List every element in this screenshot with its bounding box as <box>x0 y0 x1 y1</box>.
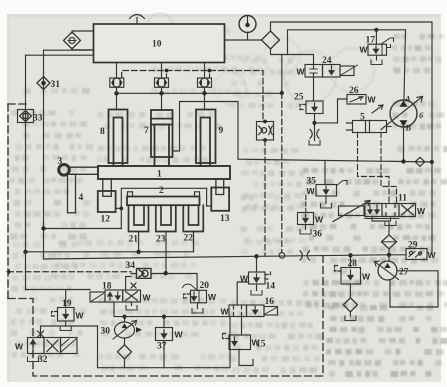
svg-text:37: 37 <box>157 342 167 352</box>
node pump 6 B <box>401 159 405 163</box>
valve 14 (relief) <box>249 272 266 284</box>
node valve 28 tap <box>348 253 352 257</box>
valve 25 tank <box>309 141 320 146</box>
check valve 34 <box>137 269 152 279</box>
node pump1 <box>114 91 118 95</box>
svg-text:W: W <box>360 45 369 55</box>
drain manifold (dashed) above pumps <box>122 71 263 122</box>
dashed enclosure top stub <box>8 103 28 105</box>
svg-text:20: 20 <box>200 281 210 291</box>
filter to return line <box>124 359 126 368</box>
dashed enclosure bottom jog <box>8 257 323 377</box>
svg-text:34: 34 <box>126 261 136 271</box>
svg-text:W: W <box>221 307 230 317</box>
svg-text:W: W <box>15 342 24 352</box>
dashed drain continues down <box>264 140 266 256</box>
svg-text:B: B <box>405 123 412 133</box>
svg-text:12: 12 <box>101 215 111 225</box>
wire 14 side to valve 16 <box>237 282 248 305</box>
pull-back cylinder 12 rod <box>103 179 112 196</box>
valve 20 tank <box>197 303 199 309</box>
dashed enclosure left edge <box>7 104 9 299</box>
svg-text:W: W <box>208 292 217 302</box>
svg-text:29: 29 <box>408 241 418 251</box>
svg-text:15: 15 <box>256 340 266 350</box>
vertical line A (left) <box>25 55 27 289</box>
pump 30 suction wire <box>124 338 126 345</box>
valve 15 pilot bracket <box>223 334 230 339</box>
valve 32 (directional, 3-pos) <box>28 338 78 354</box>
valve 20 pilot bracket <box>184 294 191 298</box>
tank 10 <box>94 24 225 63</box>
fill filter loop wires (left of tank) <box>72 31 94 50</box>
valve 17 pilot loop <box>381 38 394 48</box>
node pump 30 <box>122 315 126 319</box>
ejector cylinder 22 <box>183 205 203 231</box>
svg-text:W: W <box>143 293 152 303</box>
valve 19 drain <box>65 321 67 326</box>
valve 25 (pilot relief) <box>306 101 323 114</box>
pump 6 port B wire <box>403 127 405 162</box>
node drain block bottom <box>263 138 267 142</box>
svg-text:28: 28 <box>348 259 358 269</box>
valve 35 drain / tank <box>325 196 327 204</box>
wire down to valve 17 <box>375 30 377 44</box>
aux pump 27 <box>375 261 399 280</box>
wire 16 to valve 15 <box>241 317 243 336</box>
svg-text:27: 27 <box>399 268 409 278</box>
svg-text:26: 26 <box>349 86 359 96</box>
valve 24 (unloader solenoid) <box>305 65 358 78</box>
valve 35 (relief) <box>316 185 337 197</box>
low-pressure loop wire <box>98 302 231 368</box>
valve 32 drain <box>32 354 34 358</box>
svg-text:A: A <box>404 94 411 104</box>
wire rail to valve 14 <box>256 256 258 272</box>
fill filter diamond <box>64 32 81 49</box>
dashed pilot line x=282 <box>281 93 283 252</box>
cylinder 8 <box>109 110 128 167</box>
svg-text:9: 9 <box>219 126 224 136</box>
valve 29 <box>406 249 427 260</box>
pull-back cylinder 13 body <box>211 188 229 211</box>
svg-text:24: 24 <box>322 56 332 66</box>
beam 2 boss right <box>195 192 200 197</box>
node drain block top <box>263 120 267 124</box>
cylinder 9 <box>196 110 216 167</box>
cylinder 13 port wire <box>207 188 212 206</box>
svg-text:W: W <box>315 215 324 225</box>
pump 3 <box>198 78 212 87</box>
svg-text:25: 25 <box>294 93 304 103</box>
feed wire cylinder 8 <box>116 93 118 109</box>
feed wire cylinder 7 <box>161 93 163 110</box>
svg-text:1: 1 <box>157 170 162 180</box>
svg-text:21: 21 <box>129 235 139 245</box>
wire rail to valve 29 <box>389 254 406 256</box>
stroke gauge roller 3 <box>59 165 70 176</box>
feed stub cylinder 22 <box>193 232 195 252</box>
pilot line end circle <box>279 253 285 259</box>
svg-text:11: 11 <box>398 194 407 204</box>
suction filter diamond <box>118 345 132 359</box>
pull-back return wire to vertical B <box>44 228 122 230</box>
valve 36 <box>298 213 314 225</box>
drain stub pump 3 <box>209 71 211 79</box>
svg-text:5: 5 <box>360 113 365 123</box>
valve 18 tank <box>131 302 133 306</box>
node pump3 <box>202 91 206 95</box>
pull-back cylinder 12 body <box>98 191 116 212</box>
valve 15 drain pipe <box>239 350 253 366</box>
pump 3 suction from tank <box>204 63 206 79</box>
valve 15 (relief) <box>229 335 251 350</box>
beam 2 boss left <box>128 192 133 197</box>
pump 30 drive arrow <box>136 327 142 333</box>
valve 37 drain to return <box>163 341 165 368</box>
valve 36 pilot (dashed) <box>305 196 307 213</box>
ejector cylinder 21 <box>129 205 149 231</box>
pump 27 suction <box>390 271 438 307</box>
air filter 31 <box>37 77 50 90</box>
svg-text:W: W <box>362 272 371 282</box>
svg-text:W: W <box>428 250 437 260</box>
valve 26 (pilot valve) <box>347 95 366 105</box>
svg-text:16: 16 <box>265 297 275 307</box>
right rail continues down <box>431 162 433 255</box>
wire filter to pump 27 <box>388 249 390 262</box>
proportional valve 11 <box>333 201 416 222</box>
svg-text:30: 30 <box>101 327 111 337</box>
return filter diamond <box>262 31 280 49</box>
gauge isolator 33 <box>18 110 34 123</box>
svg-text:36: 36 <box>313 230 323 240</box>
junction marker on dashed edge <box>6 269 10 274</box>
main pump 6 <box>381 97 423 130</box>
node at pilot tap <box>280 91 284 95</box>
pump 1 outlet <box>116 87 118 93</box>
throttle under valve 25 <box>310 130 319 139</box>
wire: filter bottom / unloading line <box>271 49 314 65</box>
svg-text:13: 13 <box>220 214 230 224</box>
svg-text:W: W <box>175 330 184 340</box>
gauge stem wire <box>225 33 262 41</box>
filling pump 30 <box>113 321 137 340</box>
check/throttle block on drain (between press and valves) <box>257 122 274 141</box>
valve 25 pilot bracket <box>300 105 306 110</box>
node right rail corner <box>430 160 434 164</box>
valve 28 drain <box>349 284 351 298</box>
valve 20 pilot loop <box>183 284 198 290</box>
valve 19 pilot bracket <box>52 312 58 317</box>
cylinder 7 rod-side port wire <box>173 102 239 160</box>
main delivery rail <box>238 159 432 162</box>
servo control arrow to pump <box>372 105 383 113</box>
svg-text:10: 10 <box>152 40 162 50</box>
filter diamond under valve 11 <box>382 235 397 249</box>
wire 34 to ejector/valve20 <box>131 274 197 291</box>
node B / pull-back return <box>41 226 45 230</box>
x mark above valve 18 <box>131 283 136 288</box>
filter to tank <box>349 312 351 316</box>
wire 24 to 25 <box>313 77 315 101</box>
vertical line B <box>43 50 45 259</box>
ejector supply wire <box>26 232 194 252</box>
pump 3 outlet <box>204 87 206 93</box>
servo pilot lines (dashed) <box>358 133 390 204</box>
valve 35 pilot tap <box>337 181 348 186</box>
svg-text:22: 22 <box>184 234 194 244</box>
valve 11 tank <box>390 217 392 222</box>
feed wire cylinder 9 <box>204 93 206 109</box>
valve 18 (directional 2-pos) <box>90 290 141 302</box>
node cyl12 port <box>119 207 123 211</box>
svg-text:W: W <box>368 95 377 105</box>
pump 1 <box>110 78 124 87</box>
valve 35 feed <box>324 160 326 184</box>
pilot line to valve 34 (dashed) <box>8 271 131 273</box>
valve 36 drain / tank <box>305 225 307 230</box>
pressure gauge (top right of tank) <box>239 16 256 33</box>
breather vent on tank 10 <box>130 15 145 25</box>
wire tank-left to vertical B <box>44 49 94 51</box>
svg-text:4: 4 <box>79 193 84 203</box>
valve 28 pilot bracket <box>335 266 342 272</box>
wire: filter top to far right rail <box>271 22 433 162</box>
svg-text:33: 33 <box>33 114 43 124</box>
lower beam 2 <box>127 197 200 206</box>
wire rail to valve 28 <box>349 255 351 267</box>
valve 17 drain / tank <box>376 55 378 60</box>
valve 14 drain / tank <box>256 284 258 291</box>
svg-text:32: 32 <box>38 355 48 365</box>
cylinder 12 port wire <box>116 207 122 209</box>
node cylinder 23 feed <box>164 271 168 275</box>
valve 19 tank <box>60 326 71 331</box>
valve 28 (relief) <box>341 268 361 285</box>
ejector cylinder 23 <box>156 205 176 231</box>
x mark above valve 32 <box>38 331 44 337</box>
valve 16 (directional 2-pos) <box>229 305 278 317</box>
valve 32 tank <box>28 357 39 362</box>
node valve 14 tap <box>254 254 258 258</box>
svg-text:3: 3 <box>58 157 63 167</box>
svg-text:18: 18 <box>102 282 112 292</box>
long supply rail to the right (from B) <box>44 255 390 259</box>
valve 20 (sequence) <box>191 290 207 303</box>
branch down to valve 18 <box>126 277 131 291</box>
servo cylinder 5 <box>347 121 392 133</box>
filter under valve 28 <box>343 298 357 312</box>
pump 30 top wire <box>124 317 126 322</box>
pump 1 suction from tank <box>116 63 118 79</box>
pump 2 <box>155 78 169 87</box>
valve 14 pilot bracket <box>265 271 271 280</box>
wire tank-left to vertical A <box>26 54 94 56</box>
node feeding valve 17 <box>374 28 378 32</box>
node cylinder 21 stub <box>136 250 140 254</box>
svg-text:8: 8 <box>100 127 105 137</box>
cylinder 7 <box>151 110 173 166</box>
svg-text:35: 35 <box>307 177 317 187</box>
feed stub cylinder 23 (crosses line) <box>165 232 167 273</box>
svg-text:23: 23 <box>156 235 166 245</box>
feed stub cylinder 21 <box>138 232 140 252</box>
svg-text:14: 14 <box>266 282 276 292</box>
svg-text:W: W <box>76 311 85 321</box>
pull-back line <box>121 188 206 228</box>
arm 4 <box>68 174 76 213</box>
wire: upper right rail y=31.5 <box>288 30 406 99</box>
valve 19 (reducing) <box>58 308 75 322</box>
pressure manifold wire <box>117 92 282 94</box>
node valve 37 <box>162 315 166 319</box>
svg-text:31: 31 <box>51 80 61 90</box>
valve 11 to filter wire <box>388 217 390 235</box>
link bar from roller to beam <box>70 167 99 174</box>
wire 25 drain w/ node <box>314 114 316 141</box>
node pump 27 riser <box>387 253 391 257</box>
valve 37 top wire <box>163 317 165 328</box>
pump 2 suction from tank <box>161 63 163 79</box>
svg-text:2: 2 <box>159 186 164 196</box>
throttle on supply rail <box>300 251 310 260</box>
wire 25 to valve 26 <box>315 99 348 123</box>
valve 17 (relief) <box>368 44 387 55</box>
pull-back cylinder 13 rod <box>216 179 224 195</box>
node ejector line left <box>23 250 27 254</box>
moving beam 1 <box>98 166 230 179</box>
svg-text:W: W <box>417 206 426 216</box>
check diamond on delivery rail <box>415 157 425 166</box>
svg-text:7: 7 <box>144 126 149 136</box>
valve 32 feed from return line <box>41 326 98 338</box>
drain stub pump 2 <box>166 71 168 79</box>
wire: branch to pilot tap <box>281 55 283 94</box>
svg-text:19: 19 <box>62 299 72 309</box>
node pump2 <box>159 91 163 95</box>
svg-text:W: W <box>307 186 316 196</box>
wire A down to valve 19/18 feed <box>26 289 91 291</box>
svg-text:W: W <box>297 67 306 77</box>
relief valve 37 <box>156 328 173 341</box>
svg-text:17: 17 <box>366 36 376 46</box>
branch down to valve 19 <box>65 290 67 308</box>
pump 2 outlet <box>161 87 163 93</box>
